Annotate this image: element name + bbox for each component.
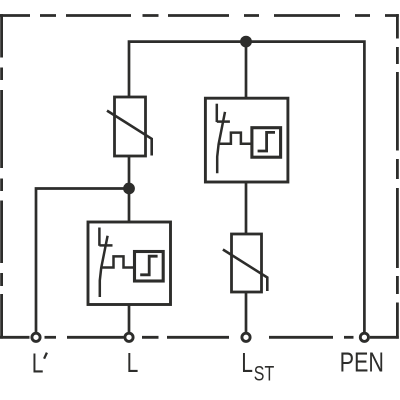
svg-text:L: L (241, 349, 253, 379)
svg-text:L: L (32, 349, 44, 379)
svg-text:ST: ST (254, 361, 274, 385)
svg-text:PEN: PEN (340, 348, 384, 378)
svg-text:L: L (127, 349, 139, 379)
